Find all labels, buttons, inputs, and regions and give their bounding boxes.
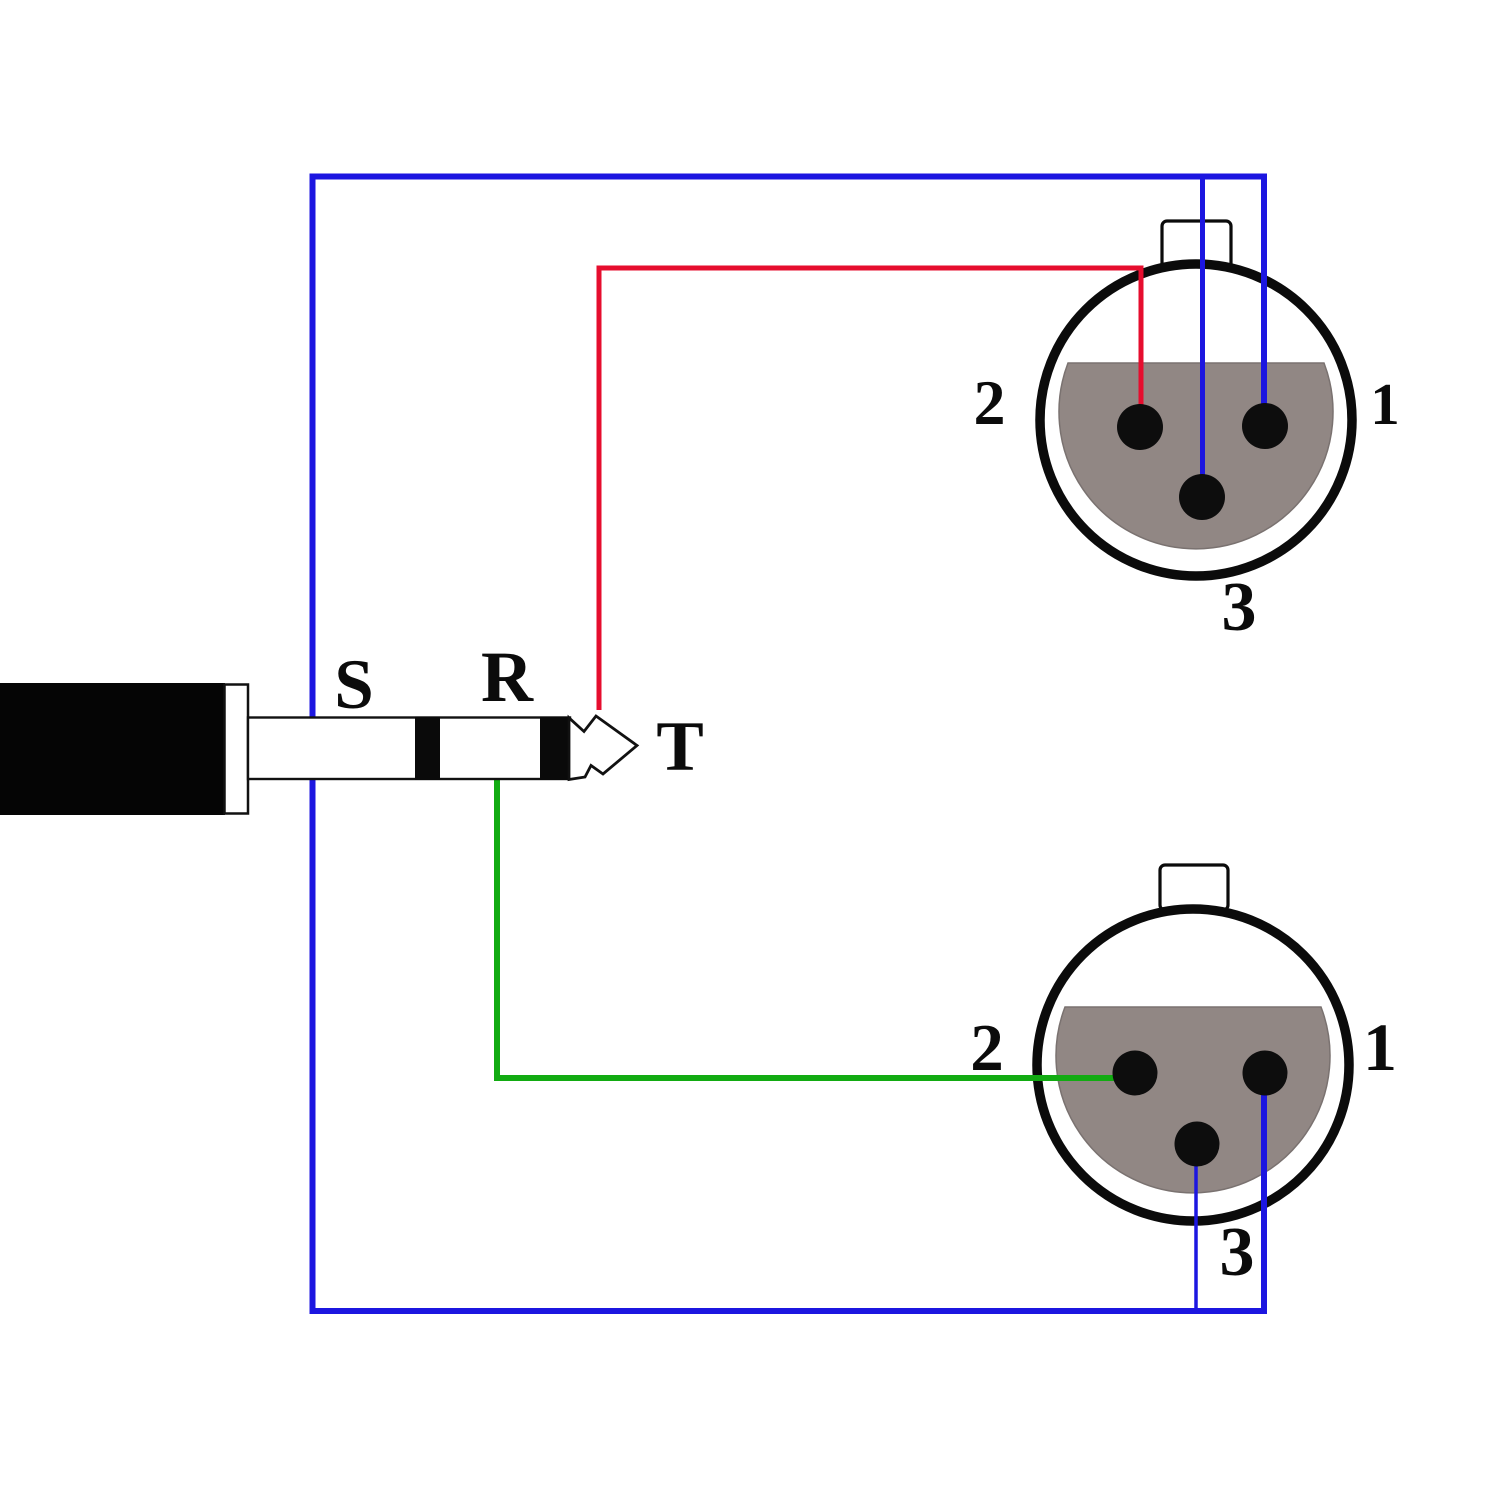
J2 pin 2 — [1113, 1051, 1158, 1096]
svg-text:3: 3 — [1220, 1214, 1255, 1291]
P1 insulator band 2 — [540, 717, 570, 781]
P1 insulator band 1 — [415, 717, 440, 781]
svg-text:2: 2 — [974, 367, 1006, 438]
wire: blue branch from bottom XLR pin 3 — [1194, 1144, 1198, 1312]
J1 pin 3 — [1179, 474, 1225, 520]
J2 shell circle — [1037, 909, 1349, 1221]
J2 pin 3 — [1175, 1122, 1220, 1167]
svg-text:3: 3 — [1222, 569, 1257, 646]
J1 gray insert — [1059, 363, 1333, 549]
svg-text:2: 2 — [970, 1011, 1004, 1085]
svg-text:S: S — [334, 646, 374, 724]
P1 shaft (sleeve/ring sections) — [248, 718, 570, 780]
wire: green tip wire from jack T to bottom XLR pin 2 — [497, 776, 1133, 1078]
wire: blue branch to top XLR pin 3 — [1200, 179, 1205, 492]
XLR connector J2 (bottom) shell — [1037, 865, 1349, 1221]
P1 body (handle) — [0, 683, 225, 815]
svg-text:T: T — [656, 708, 703, 786]
svg-text:R: R — [481, 637, 534, 717]
J2 latch tab — [1160, 865, 1228, 910]
wire: red ring wire from jack R to top XLR pin 2 — [599, 268, 1141, 710]
J1 pin 2 — [1117, 404, 1163, 450]
wire: blue sleeve main loop (jack S to XLR pin-1 top and bottom) — [313, 177, 1265, 1312]
J1 shell circle — [1040, 264, 1352, 576]
P1 collar — [225, 685, 249, 814]
J2 gray insert — [1056, 1007, 1330, 1193]
J2 pin 1 — [1243, 1051, 1288, 1096]
XLR connector J1 (top) shell — [1040, 221, 1352, 576]
svg-text:1: 1 — [1370, 371, 1400, 437]
svg-text:1: 1 — [1363, 1009, 1397, 1085]
J1 latch tab — [1162, 221, 1231, 272]
P1 tip — [569, 716, 637, 780]
J1 pin 1 — [1242, 403, 1288, 449]
TRS plug P1 — [0, 683, 637, 815]
